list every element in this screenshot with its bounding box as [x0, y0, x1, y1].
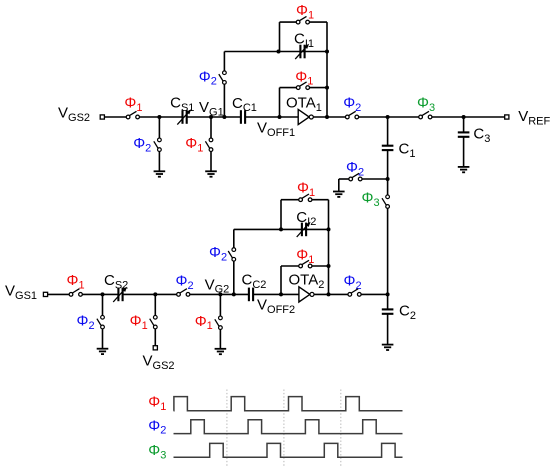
- svg-text:Φ1: Φ1: [185, 135, 203, 154]
- svg-text:Φ1: Φ1: [295, 68, 313, 87]
- wire down to phi2 switch row2: [102, 294, 104, 315]
- svg-text:OTA1: OTA1: [286, 95, 322, 114]
- node feedback2 right: [327, 264, 331, 268]
- svg-text:Φ1: Φ1: [124, 95, 142, 114]
- switch phi2 shunt row1: [154, 138, 161, 151]
- wire mid left: [339, 178, 349, 180]
- wire right vertical OTA2 block: [328, 200, 330, 295]
- wire CI2 left vertical: [280, 200, 282, 230]
- wire down to phi2 switch: [158, 117, 160, 138]
- switch phi1 shunt VG1: [205, 138, 212, 151]
- ground mid: [333, 192, 345, 197]
- terminal VREF: [505, 115, 509, 119]
- svg-text:Φ2: Φ2: [199, 68, 217, 87]
- capacitor CI2: [302, 223, 306, 237]
- node CI2 right: [327, 227, 331, 231]
- switch phi1 feedback OTA1: [296, 82, 309, 90]
- node C3 top: [462, 115, 466, 119]
- wire phi1 switch to ground: [210, 151, 212, 171]
- ground under phi2 row1: [154, 171, 166, 176]
- wire feedback1 top left: [280, 87, 297, 89]
- switch phi2 output row1: [345, 111, 358, 119]
- capacitor C3: [458, 132, 470, 136]
- node junction row1 A: [157, 115, 161, 119]
- node C1 top: [386, 115, 390, 119]
- ground under C3: [458, 167, 470, 172]
- node junction VG1-up: [222, 115, 226, 119]
- wire phi3 to C3 node: [432, 116, 505, 118]
- svg-text:Φ2: Φ2: [77, 313, 95, 332]
- switch phi2 vertical row1: [219, 71, 226, 84]
- wire OTA2 output: [314, 293, 348, 295]
- wire switch to CS1: [139, 116, 182, 118]
- wire CC1 to OTA1: [245, 116, 298, 118]
- wire CI2 switch top right: [312, 199, 329, 201]
- svg-text:C1: C1: [399, 141, 416, 160]
- wire down to phi1 switch VG1: [210, 117, 212, 138]
- waveform phi1: [174, 397, 403, 411]
- ground under C2: [382, 345, 394, 350]
- wire up to phi2 switch: [223, 84, 225, 117]
- wire CI1 left vertical: [279, 22, 281, 51]
- wire mid horizontal: [362, 178, 388, 180]
- node CI1 right: [325, 50, 329, 54]
- svg-text:VGS2: VGS2: [143, 352, 175, 371]
- wire feedback1 left vertical: [279, 88, 281, 117]
- node junction row2 A: [101, 292, 105, 296]
- terminal VGS2 bottom: [153, 346, 157, 350]
- wire phi2 to CI2 wire: [233, 229, 235, 247]
- wire feedback2 top left: [281, 265, 299, 267]
- wire VGS1 to switch: [48, 293, 70, 295]
- switch phi2 shunt row2: [97, 315, 104, 328]
- wire down to phi1 switch VG2: [219, 294, 221, 316]
- svg-text:VOFF1: VOFF1: [257, 119, 295, 138]
- svg-text:VG2: VG2: [205, 276, 230, 295]
- ground under VG2: [215, 349, 227, 354]
- switch phi1 input row1: [126, 111, 139, 119]
- capacitor CS1: [183, 110, 187, 124]
- wire CI2 horizontal: [234, 228, 329, 230]
- wire CI1 switch top left: [280, 21, 297, 23]
- wire phi1 switch to VGS2 terminal: [154, 329, 156, 346]
- ground under phi2 row2: [97, 349, 109, 354]
- switch phi1 CI1 reset: [296, 16, 309, 24]
- switch phi2 vertical row2: [228, 248, 235, 261]
- svg-text:Φ3: Φ3: [362, 190, 380, 209]
- svg-text:C2: C2: [399, 303, 416, 322]
- waveform phi3: [174, 443, 403, 457]
- wire CC2 to OTA2: [253, 293, 299, 295]
- op-amp OTA2: [299, 287, 310, 302]
- node feedback1 right: [325, 86, 329, 90]
- switch phi1 input row2: [69, 289, 82, 297]
- capacitor CI1: [300, 45, 304, 59]
- gridline t1: [226, 390, 228, 467]
- wire CS2 to phi2 switch: [123, 293, 177, 295]
- capacitor CC1: [241, 110, 245, 124]
- wire C3 to ground: [463, 137, 465, 167]
- wire phi2 switch to ground row2: [102, 329, 104, 349]
- switch phi2 output row2: [348, 289, 361, 297]
- svg-text:VREF: VREF: [518, 108, 550, 127]
- svg-text:VGS2: VGS2: [58, 105, 90, 124]
- op-amp OTA1: [298, 109, 309, 124]
- wire phi2 to CC2: [190, 293, 249, 295]
- node mid junction: [386, 177, 390, 181]
- node CI2 left: [279, 227, 283, 231]
- svg-text:Φ2: Φ2: [176, 272, 194, 291]
- node OTA2 input junction: [279, 292, 283, 296]
- switch phi3 row1: [419, 111, 432, 119]
- node VG1: [209, 115, 213, 119]
- wire right vertical OTA1 block: [326, 22, 328, 117]
- svg-text:OTA2: OTA2: [289, 272, 325, 291]
- wire phi3 down to row2 node: [387, 208, 389, 294]
- wire OTA1 output: [313, 116, 345, 118]
- switch phi2 mid: [349, 173, 362, 181]
- wire CS1 to CC1: [187, 116, 241, 118]
- wire feedback2 top right: [312, 265, 329, 267]
- svg-text:Φ1: Φ1: [130, 313, 148, 332]
- node OTA2 output junction: [327, 292, 331, 296]
- svg-text:Φ1: Φ1: [195, 313, 213, 332]
- capacitor CS2: [118, 288, 122, 302]
- gridline t2: [283, 390, 285, 467]
- wire mid down to ground: [338, 179, 340, 192]
- terminal VGS2: [100, 115, 104, 119]
- node VG2: [218, 292, 222, 296]
- wire feedback1 top right: [310, 87, 328, 89]
- wire C1 top: [387, 117, 389, 146]
- switch phi3 vertical mid: [382, 195, 389, 208]
- wire feedback2 left vertical: [280, 266, 282, 294]
- wire C1 bottom: [387, 150, 389, 179]
- node junction VGS2-branch: [153, 292, 157, 296]
- wire up to phi2 switch VG2: [233, 261, 235, 294]
- svg-text:Φ2: Φ2: [148, 417, 166, 436]
- switch phi1 feedback OTA2: [299, 260, 312, 268]
- wire phi2 to C2 node: [361, 293, 387, 295]
- wire CI1 switch top right: [309, 21, 327, 23]
- wire C2 top: [387, 294, 389, 309]
- switch phi1 shunt VG2: [215, 316, 222, 329]
- wire mid to phi3 switch: [387, 179, 389, 195]
- svg-text:Φ2: Φ2: [133, 135, 151, 154]
- switch phi2 series row2: [177, 289, 190, 297]
- wire C2 to ground: [387, 314, 389, 345]
- svg-text:Φ3: Φ3: [148, 442, 166, 461]
- terminal VGS1: [43, 292, 47, 296]
- waveform phi2: [174, 420, 403, 434]
- gridline t3: [340, 390, 342, 467]
- wire switch to CS2: [82, 293, 118, 295]
- svg-text:Φ2: Φ2: [344, 273, 362, 292]
- ground under VG1: [205, 171, 217, 176]
- svg-text:Φ2: Φ2: [343, 94, 361, 113]
- wire phi1 switch to ground VG2: [219, 329, 221, 348]
- node C2 top: [386, 292, 390, 296]
- wire VGS2 to switch: [104, 116, 126, 118]
- node OTA1 input junction: [278, 115, 282, 119]
- svg-text:Φ1: Φ1: [148, 393, 166, 412]
- wire CI2 switch top left: [281, 199, 299, 201]
- capacitor CC2: [249, 288, 253, 302]
- wire CI1 horizontal: [224, 51, 327, 53]
- node junction VG2-up: [232, 292, 236, 296]
- wire down to phi1 switch mid-row2: [154, 294, 156, 315]
- wire phi2 to C1 node: [359, 116, 419, 118]
- wire phi2 to CI1 wire: [223, 52, 225, 71]
- svg-text:VGS1: VGS1: [5, 283, 37, 302]
- svg-text:Φ2: Φ2: [209, 244, 227, 263]
- node CI1 left: [277, 50, 281, 54]
- node OTA1 output junction: [325, 115, 329, 119]
- svg-text:Φ1: Φ1: [296, 2, 314, 21]
- svg-text:VOFF2: VOFF2: [257, 297, 295, 316]
- wire C3 top: [463, 117, 465, 132]
- capacitor C1: [382, 146, 394, 150]
- svg-text:Φ1: Φ1: [67, 272, 85, 291]
- capacitor C2: [382, 309, 394, 313]
- svg-text:C3: C3: [473, 125, 490, 144]
- svg-text:Φ3: Φ3: [417, 95, 435, 114]
- wire phi2 switch to ground: [158, 151, 160, 171]
- switch phi1 VGS2 branch: [150, 315, 157, 328]
- switch phi1 CI2 reset: [299, 194, 312, 202]
